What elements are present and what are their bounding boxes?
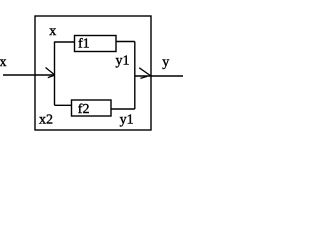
wire input x xyxy=(3,74,55,76)
wire to f1 input xyxy=(55,41,75,43)
wire output y xyxy=(135,75,183,77)
block f1 xyxy=(75,36,117,52)
svg-text:y1: y1 xyxy=(116,53,130,68)
svg-text:x: x xyxy=(49,24,56,39)
wire f2 output xyxy=(111,108,135,110)
svg-text:f2: f2 xyxy=(78,102,90,117)
output arrowhead xyxy=(139,68,150,79)
svg-text:y: y xyxy=(162,55,169,70)
wire left riser xyxy=(54,42,56,106)
wire right riser xyxy=(134,42,136,110)
outer system box xyxy=(35,16,151,130)
block f2 xyxy=(72,100,112,116)
svg-text:f1: f1 xyxy=(78,37,90,52)
input arrowhead xyxy=(46,68,55,78)
wire to f2 input xyxy=(55,104,72,106)
svg-text:x: x xyxy=(0,55,7,70)
svg-text:x2: x2 xyxy=(39,113,53,128)
svg-text:y1: y1 xyxy=(120,112,134,127)
wire f1 output xyxy=(116,41,135,43)
